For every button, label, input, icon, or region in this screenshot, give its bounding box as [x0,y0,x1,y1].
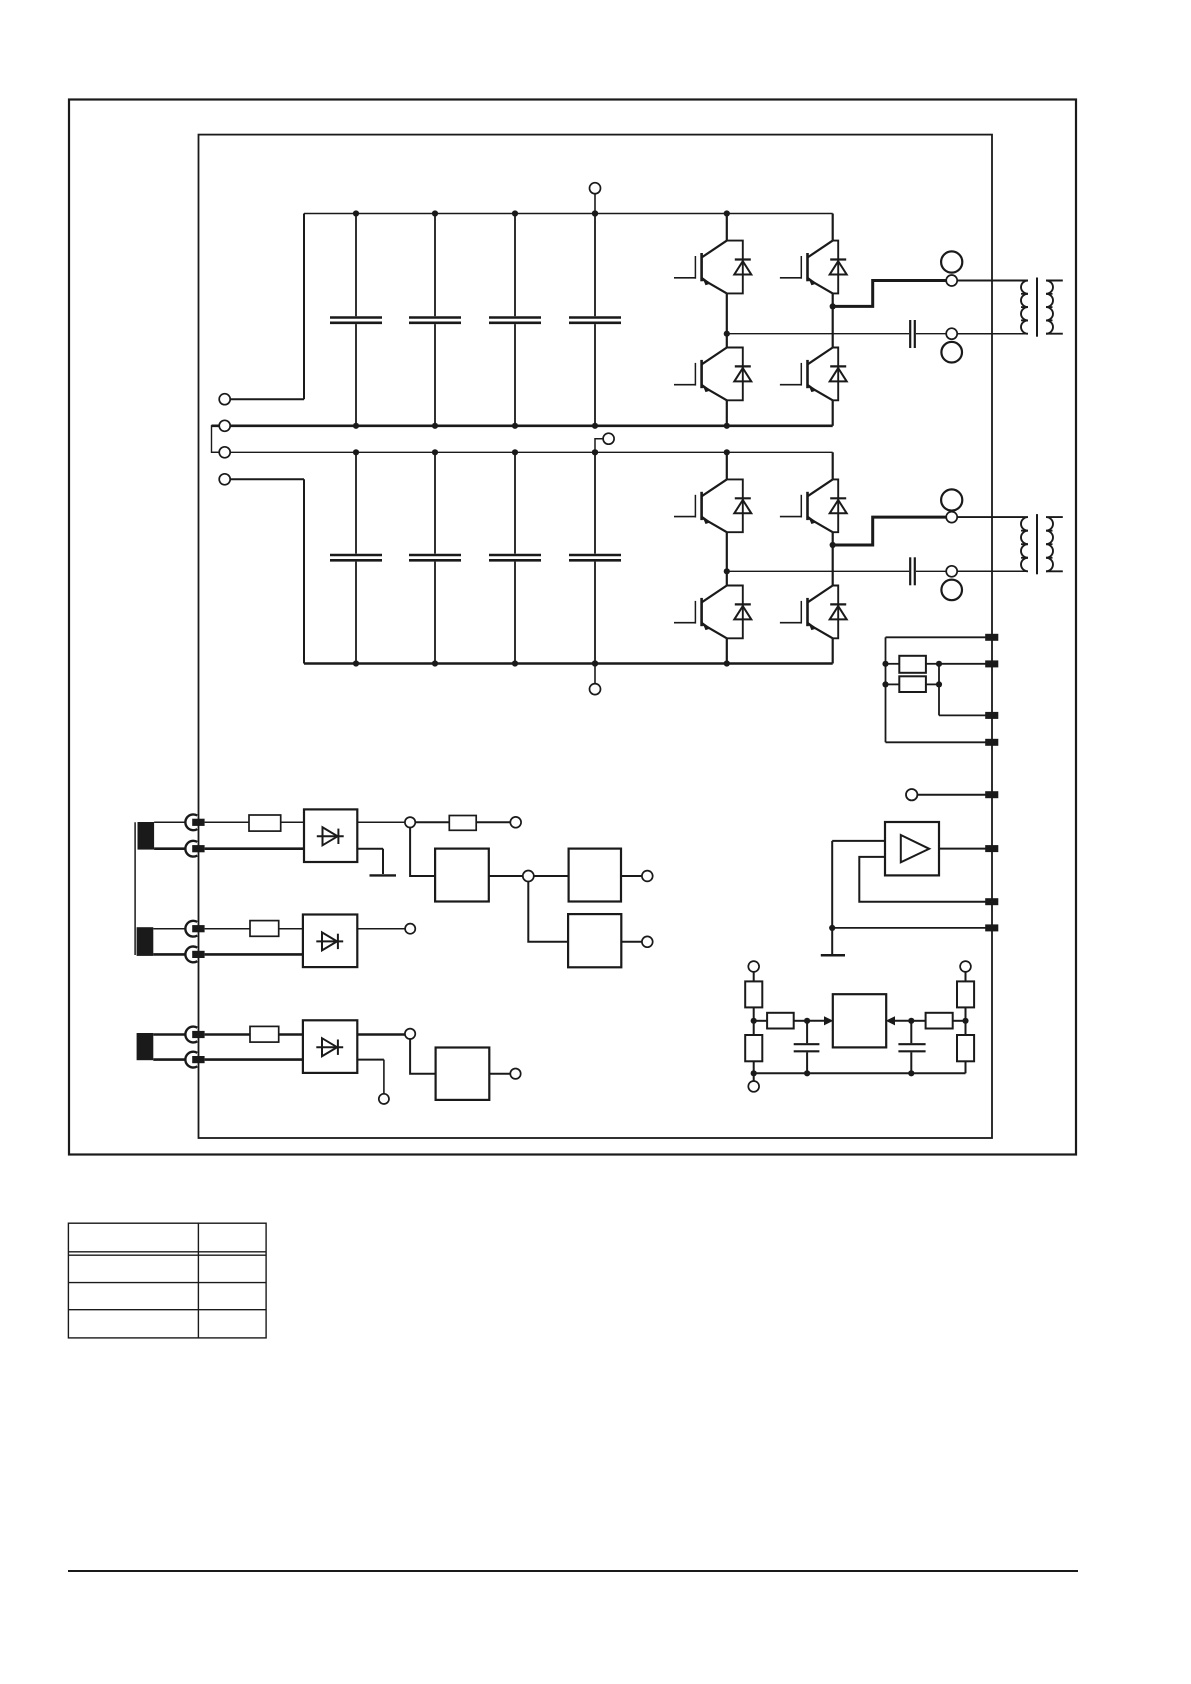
bridge rectifier B1 box [304,809,357,862]
resistor R7 [957,972,974,1035]
terminal output pin upper section 1 [946,275,957,286]
wire emitter Q7 to midpoint [832,532,834,585]
wire emitter Q8 to DC- bus [832,638,834,663]
terminal DC+ test point [590,183,601,194]
capacitor C3 [489,214,541,426]
node DC+ sec2 stub [592,439,603,456]
wire F3 to rectifier [279,928,303,930]
wire U1 output to pad [939,848,992,850]
bridge rectifier B2 box [303,915,357,968]
diode D4 antiparallel [830,348,847,401]
diode D3 antiparallel [830,241,847,294]
terminal DC+ test point section 2 [603,433,614,444]
wire node to F2 [415,821,449,823]
capacitor C4 [569,214,621,426]
connector J3 pin 2 [185,1052,204,1068]
wire emitter Q6 to DC- bus [726,638,728,663]
connector J2 pin 2 [185,947,204,963]
diode D2 antiparallel [727,348,752,401]
capacitor C5 [330,452,382,663]
bridge rectifier B2 diode [316,932,343,950]
wire R1 output to pad [939,663,992,665]
transistor Q2 (IGBT) [674,348,727,401]
bridge rectifier B3 box [303,1020,357,1073]
fuse F3 [250,921,279,937]
wire DC+ bus section 1 [304,213,833,215]
wire J1 body to pin 2 [154,847,186,850]
diode D1 antiparallel [727,241,752,294]
wire J2 line 1 [205,928,250,930]
terminal output socket lower section 2 [941,580,962,601]
capacitor C7 [489,452,541,663]
wire J2 body to pin 1 [153,928,186,930]
resistor R6 [911,1013,965,1029]
wire DC- bus section 2 [304,662,833,665]
wire feedback top [886,636,992,638]
wire J2 body to pin 2 [153,953,186,956]
wire emitter Q4 to DC- bus [832,400,834,426]
node U3 output [523,871,534,882]
fuse F2 [449,816,476,831]
diode D6 antiparallel [727,586,752,639]
diode D5 antiparallel [727,479,752,532]
resistor R3 [745,972,762,1035]
wire U1 input+ [832,840,885,842]
junctions on DC- bus section 2 [353,660,730,666]
wire J1 body to pin 1 [154,821,186,823]
wire R2 right rail [939,664,992,716]
node midpoint leg A section 1 [724,331,730,337]
wire feedback left rail [885,637,887,742]
wire F1 to rectifier [281,821,304,823]
wire left riser to DC- bus section 2 [303,479,305,663]
wire B2 output [357,928,405,930]
terminal output pin lower section 2 [946,566,957,577]
connector J3 pin 1 [185,1027,204,1043]
wire feedback bottom [886,741,992,743]
junctions thermistor network [751,1018,969,1077]
wire link DC- sec1 to DC+ sec2 [212,426,220,453]
resistor R2 [886,676,940,692]
capacitor C9 series output section 1 [910,320,915,348]
node DC- sec2 stub [592,660,598,683]
junctions resistor pair [882,661,942,688]
node B3 output [405,1029,415,1039]
terminal U5 output [642,936,653,947]
junctions on DC+ bus section 1 [353,210,730,216]
wire U4 output [621,875,642,877]
connector pads on inner frame right edge [985,634,998,932]
wire node to U4 [534,875,569,877]
wire emitter Q1 to midpoint [726,293,728,347]
terminal output socket upper section 1 [941,251,962,272]
footer rule [68,1570,1078,1572]
transistor Q1 (IGBT) [674,241,727,294]
terminal DC- input section 2 [219,474,304,485]
wire node down to U5 [528,882,568,942]
module U6 box [436,1048,490,1100]
node midpoint leg A section 2 [724,568,730,574]
controller U2 box [833,994,886,1047]
wire left riser to DC+ bus [303,214,305,400]
wire J2 line 2 [205,953,303,956]
junctions on DC- bus section 1 [353,423,730,429]
wire node down to U6 [410,1039,436,1074]
wire J1 line 2 [205,847,304,850]
transistor Q8 (IGBT) [780,586,833,639]
wire emitter Q3 to midpoint [832,293,834,347]
connector J1 pin 2 [185,841,204,857]
wire output leg A section 2 [727,570,946,572]
terminal DC- test point section 2 [590,684,601,695]
wire J3 line 1 [205,1033,250,1036]
wire B3 lower output [357,1060,384,1094]
terminal output pin lower section 1 [946,328,957,339]
terminal NTC left bottom [748,1081,759,1092]
wire J1 line 1 [205,821,249,823]
terminal NTC left top [748,961,759,972]
diode D7 antiparallel [830,479,847,532]
op-amp U1 box [885,822,939,875]
wire U1 ground rail [831,841,833,954]
wire output leg A section 1 [727,333,946,335]
fuse F4 [250,1026,279,1042]
terminal NTC right top [960,961,971,972]
terminal B3 lower output [379,1094,389,1104]
wire F2 to terminal [476,821,510,823]
junctions on DC+ bus section 2 [353,449,730,455]
wire J3 body to pin 2 [153,1058,186,1061]
wire emitter Q2 to DC- bus [726,400,728,426]
wire U5 output [621,941,642,943]
transistor Q3 (IGBT) [780,241,833,294]
wire J3 body to pin 1 [153,1033,186,1036]
capacitor C12 [898,1021,925,1074]
ground symbol B1 [370,874,397,876]
wire collector riser Q3 [832,214,834,241]
wire mains cable bracket [134,822,136,955]
terminal DC+ section 2 [219,447,230,458]
wire ground rail to pad [832,927,992,929]
terminal output socket lower section 1 [941,342,962,363]
resistor R5 [754,1013,807,1029]
bridge rectifier B3 diode [316,1038,343,1056]
transistor Q4 (IGBT) [780,348,833,401]
wire node down to U3 [410,828,435,877]
capacitor C6 [409,452,461,663]
wire collector riser Q7 [832,452,834,479]
terminal output pin upper section 2 [946,512,957,523]
transistor Q5 (IGBT) [674,479,727,532]
outer border frame [69,100,1076,1155]
transistor Q6 (IGBT) [674,586,727,639]
terminal output socket upper section 2 [941,489,962,510]
resistor R1 [886,656,940,673]
module U3 box [435,849,489,902]
connector plug J2 body [137,927,154,956]
capacitor C2 [409,214,461,426]
wire DC+ bus section 2 [212,451,833,453]
wire output leg B section 1 [833,281,947,307]
fuse F1 [249,815,281,831]
node midpoint leg B section 2 [830,542,836,548]
terminal DC- section 1 [219,420,230,431]
transformer T1 output section 1 [957,278,1063,337]
terminal U4 output [642,871,653,882]
wire output leg B section 2 [833,517,947,545]
wire thermistor bottom rail [754,1072,966,1074]
wire J3 line 2 [205,1058,303,1061]
wire B1 output [357,821,405,823]
capacitor C1 [330,214,382,426]
connector plug J3 body [137,1033,154,1060]
wire emitter Q5 to midpoint [726,532,728,585]
wire arrow into U2 right [886,1016,912,1025]
inner border frame [199,135,993,1138]
module U4 box [569,849,621,902]
connector J1 pin 1 [185,814,204,830]
node B1 output [405,817,415,827]
transistor Q7 (IGBT) [780,479,833,532]
node ground rail [829,925,835,931]
wire U6 output [489,1073,510,1075]
terminal B2 output [405,924,415,934]
diode D8 antiparallel [830,586,847,639]
bridge rectifier B1 diode [317,827,344,845]
ground symbol [821,954,845,957]
resistor R8 [957,1035,974,1073]
table revision block [68,1223,266,1338]
capacitor C11 [794,1021,820,1074]
terminal aux supply 1 [510,817,521,828]
terminal sense input [906,789,992,800]
connector plug J1 body [138,822,155,850]
wire F4 to rectifier [279,1033,303,1036]
capacitor C10 series output section 2 [910,557,915,585]
wire DC- bus section 1 [212,424,833,427]
capacitor C8 [569,452,621,663]
wire B1 to ground [357,849,383,874]
node DC+ test point stub [592,194,598,217]
wire U3 to node [489,875,523,877]
wire U1 input- [859,857,992,902]
connector J2 pin 1 [185,921,204,937]
resistor R4 [745,1035,762,1081]
transformer T2 output section 2 [957,514,1063,574]
op-amp U1 triangle [901,835,929,862]
node midpoint leg B section 1 [830,303,836,309]
terminal DC+ input section 1 [219,394,304,405]
wire B3 output [357,1033,405,1036]
module U5 box [568,914,621,967]
wire arrow into U2 left [807,1016,833,1025]
wire collector riser Q1 [726,214,728,241]
terminal U6 output [510,1069,520,1079]
wire collector riser Q5 [726,452,728,479]
